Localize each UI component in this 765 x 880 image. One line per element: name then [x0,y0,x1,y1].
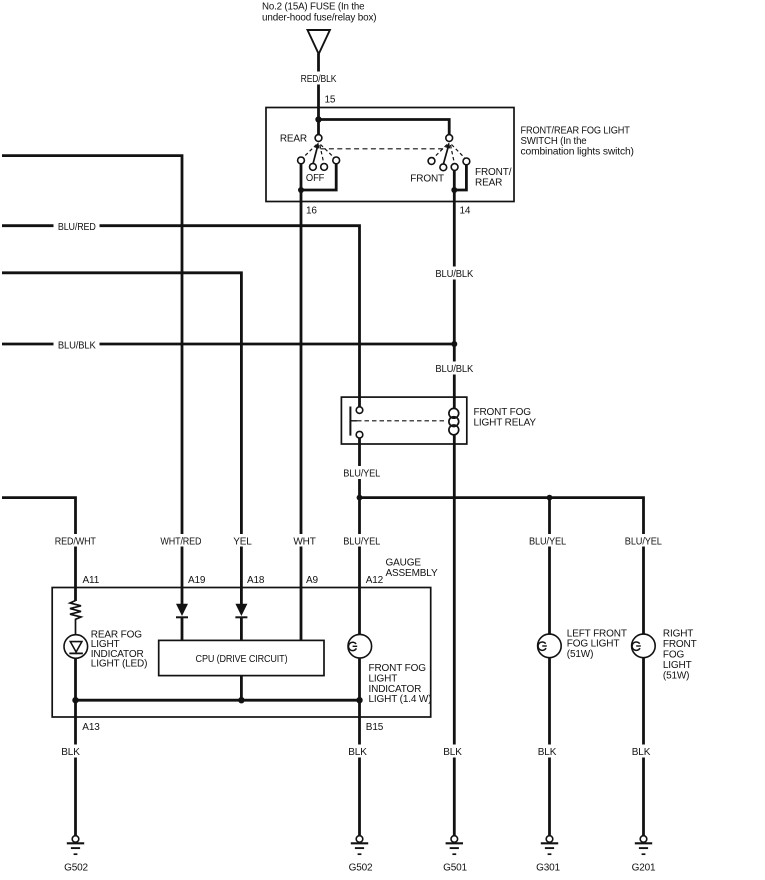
switch contact right 1 [428,158,435,165]
wire diode D1 to CPU [181,617,184,640]
svg-text:FRONT: FRONT [410,173,444,184]
caption REAR FOG LIGHT INDICATOR LIGHT (LED) [91,629,148,669]
relay box FRONT FOG LIGHT RELAY [341,397,466,444]
label BLU/YEL above branch [342,466,382,480]
label BLU/YEL at right fog [624,534,664,548]
svg-text:BLK: BLK [538,747,557,758]
svg-text:(51W): (51W) [663,671,689,682]
bulb right front fog light [632,634,656,658]
relay coil [449,397,459,435]
svg-text:WHT/RED: WHT/RED [160,537,201,548]
svg-text:FRONT/: FRONT/ [475,167,512,178]
svg-text:CPU (DRIVE CIRCUIT): CPU (DRIVE CIRCUIT) [196,654,288,665]
svg-text:YEL: YEL [233,537,252,548]
svg-text:14: 14 [460,206,471,217]
switch pole FRONT [446,135,453,142]
relay coil link dashed [357,420,447,422]
wire BLK relay coil down to ground G501 [453,435,456,836]
svg-text:REAR: REAR [280,133,307,144]
svg-text:OFF: OFF [306,173,324,184]
LED rear fog indicator [64,635,88,659]
label YEL [231,534,254,548]
ground G502 (B15) [351,836,368,855]
wire right front fog light to ground G201 [642,658,645,836]
ground G301 [541,836,558,855]
svg-text:G502: G502 [349,862,373,873]
ground G201 [635,836,652,855]
svg-text:LIGHT (LED): LIGHT (LED) [91,659,148,670]
svg-text:G501: G501 [443,862,467,873]
junction node pin16 [298,187,304,193]
svg-text:BLU/RED: BLU/RED [58,222,96,233]
label FRONT/REAR [475,167,512,189]
label BLK at G201 [631,745,651,758]
junction node bus at CPU [238,697,244,703]
wire LED cathode down to ground bus [74,658,77,700]
svg-text:FRONT/REAR FOG LIGHT: FRONT/REAR FOG LIGHT [521,125,630,136]
wire BLU/YEL relay output down to indicator bulb A12 [358,438,361,635]
svg-text:BLU/BLK: BLU/BLK [435,269,473,280]
switch contact left 2 (OFF) [310,164,317,171]
wire feed YEL from left edge down to diode D2 [2,273,241,604]
svg-text:BLU/YEL: BLU/YEL [625,537,663,548]
label BLU/RED [54,220,100,233]
junction node BLU/YEL branch at A12 wire [357,495,363,501]
gauge assembly caption [386,557,438,579]
svg-text:BLU/BLK: BLU/BLK [58,340,96,351]
relay armature bar [350,407,357,436]
fuse caption No.2 (15A) FUSE [262,2,376,24]
caption LEFT FRONT FOG LIGHT (51W) [567,628,627,660]
wire pin14 from FRONT contact down to relay (BLU/BLK) [453,170,456,397]
svg-text:LIGHT (1.4 W): LIGHT (1.4 W) [369,694,432,705]
label RED/BLK [299,72,339,86]
relay switch pin bottom [356,431,363,438]
wire switch pole link pin15 to FRONT pole [319,120,450,135]
svg-text:No.2 (15A) FUSE (In the: No.2 (15A) FUSE (In the [262,2,365,13]
svg-text:(51W): (51W) [567,649,593,660]
svg-text:G502: G502 [64,862,88,873]
wire RED/BLK from fuse to switch pole REAR [317,54,320,135]
svg-text:combination lights switch): combination lights switch) [521,147,634,158]
junction node left fog drop [547,495,553,501]
wire jumper right contact 4 to pin14 junction [455,165,466,190]
svg-text:RIGHT: RIGHT [663,628,693,639]
svg-text:FOG: FOG [663,650,685,661]
svg-text:A19: A19 [188,575,206,586]
svg-text:BLU/YEL: BLU/YEL [529,537,567,548]
gauge assembly box [52,588,431,718]
svg-text:G201: G201 [632,862,656,873]
mechanical link dashed line between switch halves [321,148,447,150]
svg-text:A18: A18 [247,575,265,586]
svg-text:16: 16 [306,206,317,217]
svg-text:A11: A11 [83,575,100,586]
bulb front fog indicator [348,634,372,658]
label BLU/YEL at A12 [342,534,382,548]
svg-text:BLK: BLK [61,747,80,758]
switch box FRONT/REAR FOG LIGHT SWITCH [266,108,514,202]
wire feed BLU/BLK from left edge to pin14 junction [2,343,454,346]
svg-text:15: 15 [325,94,336,105]
wire CPU to ground bus [240,676,243,701]
svg-text:BLK: BLK [443,747,462,758]
label BLK at G301 [537,745,557,758]
diode D2 (A18 input) [235,604,247,618]
switch pole REAR [315,135,322,142]
svg-text:RED/BLK: RED/BLK [301,74,337,85]
wire left front fog light to ground G301 [548,658,551,836]
label BLU/BLK left feed [54,338,100,351]
bulb left front fog light [538,634,562,658]
ground G502 (A13) [67,836,84,855]
wire feed RED/WHT from left edge down to resistor [2,498,76,601]
label BLK at B15 [348,745,368,758]
junction node pin15 [315,116,321,122]
wire indicator bulb down to ground bus [358,658,361,700]
resistor (LED series) [70,601,81,635]
svg-text:LIGHT RELAY: LIGHT RELAY [474,418,537,429]
label WHT [291,534,319,548]
svg-text:G301: G301 [536,862,560,873]
caption RIGHT FRONT FOG LIGHT (51W) [663,628,697,681]
CPU box [159,640,324,675]
switch contact right 4 (FRONT/REAR) [463,158,470,165]
wire pin16 from OFF contact down to A9 (WHT) [300,164,303,641]
svg-text:BLU/YEL: BLU/YEL [343,469,381,480]
fuse No.2 (15A) symbol [308,30,330,54]
switch caption FRONT/REAR FOG LIGHT SWITCH [521,125,634,157]
wire diode D2 to CPU [240,617,243,640]
wire B15 to ground G502 [358,700,361,836]
svg-text:A13: A13 [82,722,100,733]
relay switch pin top [356,407,363,414]
label WHT/RED [159,534,203,548]
label BLU/BLK lower on pin14 wire [435,362,475,376]
svg-text:ASSEMBLY: ASSEMBLY [386,568,438,579]
svg-text:GAUGE: GAUGE [386,557,422,568]
svg-text:BLK: BLK [632,747,651,758]
wire A13 to ground G502 [74,700,77,836]
svg-text:FRONT FOG: FRONT FOG [474,407,532,418]
relay caption FRONT FOG LIGHT RELAY [474,407,537,429]
switch contact right 3 (pin14) [451,164,458,171]
diode D1 (A19 input) [176,604,188,618]
svg-text:A12: A12 [366,575,384,586]
svg-text:SWITCH (In the: SWITCH (In the [521,136,588,147]
caption FRONT FOG LIGHT INDICATOR LIGHT (1.4 W) [369,663,432,705]
svg-text:under-hood fuse/relay box): under-hood fuse/relay box) [262,12,376,23]
label BLU/YEL at left fog [528,534,568,548]
selector solid arm left with arrowhead [313,142,320,164]
svg-text:FRONT: FRONT [663,639,697,650]
junction node bus at B15 [356,697,362,703]
selector dashed lines left (REAR pole) [303,145,334,163]
label RED/WHT [53,534,99,548]
junction node bus at A13 [72,697,78,703]
switch contact right 2 (FRONT) [440,164,447,171]
svg-text:BLU/BLK: BLU/BLK [435,364,473,375]
switch contact left 1 (pin16) [298,157,305,164]
label BLK at G501 [443,745,463,758]
svg-text:LIGHT: LIGHT [663,660,692,671]
switch contact left 3 [321,164,328,171]
svg-text:RED/WHT: RED/WHT [55,537,96,548]
junction node BLU/BLK with pin14 wire [451,341,457,347]
wire branch BLU/YEL to front fog lights [360,498,644,635]
label BLU/BLK upper on pin14 wire [435,267,475,281]
wire drop to left front fog light [548,498,551,635]
selector solid arm right with arrowhead [443,142,450,164]
svg-text:BLU/YEL: BLU/YEL [343,537,381,548]
svg-text:REAR: REAR [475,177,502,188]
svg-text:WHT: WHT [293,537,315,548]
selector dashed lines right (FRONT pole) [434,145,465,164]
wire feed BLU/RED from left edge to relay switch pin [2,226,360,407]
switch contact left 4 [333,157,340,164]
svg-text:B15: B15 [366,722,384,733]
svg-text:BLK: BLK [348,747,367,758]
ground G501 [446,836,463,855]
junction node pin14 [451,187,457,193]
wire ground bus inside gauge assembly [76,699,360,702]
svg-text:A9: A9 [306,575,319,586]
label BLK at A13 [61,745,81,758]
wire feed WHT/RED from left edge down to diode D1 [2,156,182,604]
wire jumper left contact 4 to pin16 junction [302,164,336,190]
